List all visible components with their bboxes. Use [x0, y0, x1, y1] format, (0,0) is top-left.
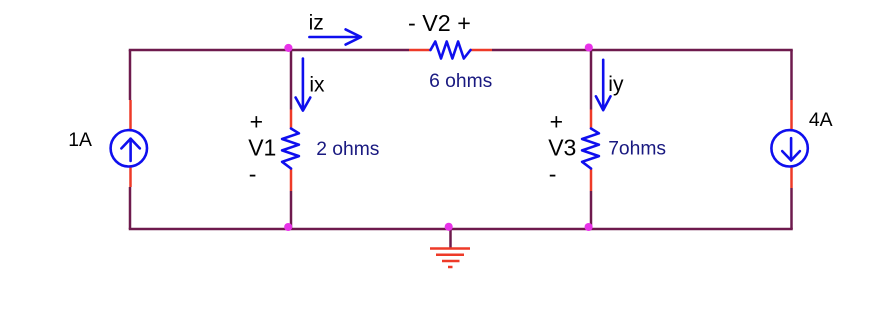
svg-text:6 ohms: 6 ohms [429, 71, 492, 92]
svg-text:7ohms: 7ohms [608, 139, 666, 160]
svg-text:- V2 +: - V2 + [408, 10, 471, 36]
svg-text:+: + [550, 109, 563, 135]
svg-text:iz: iz [309, 12, 324, 35]
svg-text:2 ohms: 2 ohms [316, 139, 379, 160]
svg-text:iy: iy [608, 73, 624, 96]
svg-text:+: + [250, 109, 263, 135]
svg-text:V3: V3 [548, 135, 576, 161]
svg-text:-: - [549, 161, 557, 187]
svg-text:1A: 1A [68, 129, 92, 151]
svg-text:-: - [249, 161, 257, 187]
svg-text:ix: ix [309, 74, 325, 97]
svg-text:4A: 4A [809, 109, 833, 131]
svg-text:V1: V1 [248, 135, 276, 161]
